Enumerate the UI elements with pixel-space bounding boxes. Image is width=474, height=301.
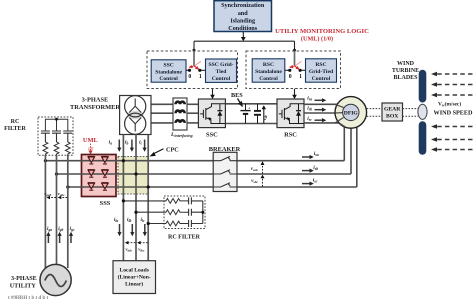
wire: grid vertical phase c xyxy=(67,155,69,268)
wire: load vertical phase a (transformer to loads) xyxy=(122,135,124,261)
svg-text:irc: irc xyxy=(307,116,312,122)
svg-text:vsbc: vsbc xyxy=(251,179,258,184)
svg-text:Linear): Linear) xyxy=(125,281,143,288)
svg-text:ic: ic xyxy=(139,139,142,145)
svg-text:Control: Control xyxy=(312,76,331,82)
resistor load-RC phase a xyxy=(166,199,187,204)
svg-text:Synchronization: Synchronization xyxy=(221,2,265,9)
label: v_lab / v_lbc with arrows xyxy=(128,242,136,244)
label: WIND TURBINE BLADES xyxy=(392,61,419,81)
resistor load-RC phase b xyxy=(166,210,187,215)
dashed box: SSC control group xyxy=(147,51,238,89)
wire: load RC tap b xyxy=(136,211,166,213)
svg-text:DFIG: DFIG xyxy=(344,111,359,117)
svg-text:+: + xyxy=(248,105,251,110)
wire: junction into SSC switch pivot xyxy=(193,50,195,66)
svg-text:and: and xyxy=(238,10,249,17)
wind arrows (dashed) xyxy=(436,74,473,150)
wire: sync box output to control branch xyxy=(194,32,295,51)
wire: RC filter common top bus xyxy=(45,119,67,131)
svg-text:Control: Control xyxy=(259,76,278,82)
svg-text:Grid-Tied: Grid-Tied xyxy=(309,69,334,75)
svg-text:ia: ia xyxy=(109,139,112,145)
wind turbine blade (lower) xyxy=(419,121,427,154)
svg-text:3-PHASE: 3-PHASE xyxy=(11,275,37,282)
capacitor dc-link xyxy=(254,104,261,124)
svg-text:Linterfacing: Linterfacing xyxy=(170,132,193,138)
box: Synchronization and Islanding Conditions xyxy=(214,1,272,32)
svg-text:WIND SPEED: WIND SPEED xyxy=(434,110,474,117)
wire: stator drops from DFIG to bus xyxy=(344,125,357,187)
switch: RSC UML selector xyxy=(285,61,306,80)
dashed box: load RC filter xyxy=(164,196,205,229)
wire: load RC tap a xyxy=(123,200,166,202)
svg-text:Standalone: Standalone xyxy=(155,69,182,75)
svg-text:Local Loads: Local Loads xyxy=(120,268,150,274)
node: load RC right bus xyxy=(201,211,204,214)
svg-text:RSC: RSC xyxy=(315,62,326,68)
svg-text:1: 1 xyxy=(199,74,202,80)
node: RC tap c xyxy=(147,222,150,225)
bus line phase a xyxy=(45,160,344,162)
svg-text:igc: igc xyxy=(70,226,75,232)
node: transformer drop on bus a xyxy=(122,159,125,162)
box: SSC Standalone Control xyxy=(151,60,186,82)
node: RC filter top xyxy=(55,118,58,121)
svg-text:UTILIY MONITORING LOGIC: UTILIY MONITORING LOGIC xyxy=(275,28,369,35)
svg-text:isa: isa xyxy=(314,151,319,157)
svg-text:ira: ira xyxy=(307,96,312,102)
wire: transformer to interfacing inductor (3-phase) xyxy=(151,104,173,123)
wire: load vertical phase c xyxy=(147,135,149,261)
svg-text:BLADES: BLADES xyxy=(393,75,418,81)
switch: SSC UML selector xyxy=(186,61,206,80)
inductor L_interfacing xyxy=(173,98,187,130)
svg-text:iga: iga xyxy=(47,226,52,232)
wire: load RC tap c xyxy=(148,223,166,225)
wire: inductor to SSC (3-phase) xyxy=(187,104,198,123)
svg-text:ilb: ilb xyxy=(127,217,131,223)
box: SSS static switch body xyxy=(82,155,117,197)
capacitor load-RC phase a xyxy=(187,197,203,204)
dashed box: grid RC filter xyxy=(38,117,73,155)
svg-text:RSC: RSC xyxy=(284,131,297,138)
node: bus start b xyxy=(55,172,58,175)
battery BES xyxy=(240,104,250,124)
svg-text:0: 0 xyxy=(188,74,191,80)
svg-text:BOX: BOX xyxy=(386,114,399,120)
svg-text:ila: ila xyxy=(114,217,118,223)
thyristor pairs inside SSS (2 cols x 3 rows) xyxy=(88,156,108,190)
svg-text:RSC: RSC xyxy=(263,62,274,68)
svg-text:Control: Control xyxy=(212,76,231,82)
label: RC FILTER (grid side) xyxy=(4,119,26,132)
svg-text:vgbc: vgbc xyxy=(58,191,65,197)
svg-text:0: 0 xyxy=(289,74,292,80)
gearbox xyxy=(382,103,403,121)
svg-text:ilc: ilc xyxy=(141,217,145,223)
svg-text:RC: RC xyxy=(11,119,20,125)
label: 3-PHASE UTILITY xyxy=(10,275,37,289)
capacitor load-RC phase b xyxy=(187,209,203,216)
svg-text:Control: Control xyxy=(159,76,178,82)
svg-text:isc: isc xyxy=(313,178,318,184)
wind turbine hub xyxy=(418,104,427,119)
svg-text:vdc: vdc xyxy=(263,114,268,120)
svg-text:CPC: CPC xyxy=(166,146,179,153)
svg-text:isb: isb xyxy=(313,165,318,171)
svg-text:RC FILTER: RC FILTER xyxy=(168,235,201,241)
svg-text:WIND: WIND xyxy=(397,61,415,67)
svg-text:ib: ib xyxy=(125,139,128,145)
wire: rotor phase lines RSC to DFIG xyxy=(304,104,345,123)
converter SSC xyxy=(198,99,225,128)
label: v_dc arrow xyxy=(263,109,265,124)
box: Local Loads xyxy=(113,261,156,294)
svg-text:TRANSFORMER: TRANSFORMER xyxy=(70,104,120,111)
dashed box: RSC control group xyxy=(246,51,341,89)
svg-text:SSC: SSC xyxy=(206,131,218,138)
svg-text:GEAR: GEAR xyxy=(384,107,401,113)
svg-text:vsab: vsab xyxy=(251,167,258,172)
capacitor grid-RC phase b xyxy=(52,131,61,142)
svg-text:(UML) (1/0): (UML) (1/0) xyxy=(301,36,333,43)
generator DFIG xyxy=(335,97,367,129)
box: RSC Grid-Tied Control xyxy=(306,59,337,82)
box: SSC Grid-Tied Control xyxy=(206,59,237,82)
wire: grid vertical phase b xyxy=(56,155,58,270)
svg-text:vlbc: vlbc xyxy=(138,247,145,253)
node: SSC control junction xyxy=(193,49,196,52)
label: 3-PHASE TRANSFORMER xyxy=(70,96,120,111)
wire: junction into RSC switch pivot xyxy=(294,50,296,66)
svg-text:Islanding: Islanding xyxy=(230,17,256,24)
svg-text:vgab: vgab xyxy=(44,191,51,197)
wire: dc link rails xyxy=(225,103,277,105)
node: RC tap a xyxy=(122,199,125,202)
shaft: DFIG to gearbox (dotted) xyxy=(367,109,418,117)
svg-text:Conditions: Conditions xyxy=(228,25,257,32)
box: CPC (common point of coupling, shaded) xyxy=(118,157,148,195)
svg-text:igb: igb xyxy=(58,226,63,232)
resistor load-RC phase c xyxy=(166,221,187,226)
svg-text:(Linear+Non-: (Linear+Non- xyxy=(118,274,151,281)
svg-text:1: 1 xyxy=(299,74,302,80)
node: bus start c xyxy=(66,185,69,188)
resistor grid-RC phase c xyxy=(65,142,70,155)
resistor grid-RC phase a xyxy=(43,142,48,155)
svg-text:UML: UML xyxy=(83,137,98,144)
breaker box xyxy=(213,152,237,191)
svg-text:FILTER: FILTER xyxy=(4,126,26,132)
svg-text:SSC Grid-: SSC Grid- xyxy=(208,62,233,68)
wire: load RC right bus xyxy=(202,201,204,224)
wire: SSC control output to SSC converter xyxy=(212,89,214,96)
node: RSC control junction xyxy=(293,49,296,52)
box: RSC Standalone Control xyxy=(252,59,285,82)
node: bus start a xyxy=(44,159,47,162)
source: 3-phase utility xyxy=(40,264,71,295)
svg-text:Standalone: Standalone xyxy=(255,69,282,75)
svg-text:BES: BES xyxy=(231,92,243,99)
capacitor load-RC phase c xyxy=(187,220,203,227)
breaker blades xyxy=(213,156,237,187)
svg-text:t #9HRH t b t d: t #9HRH t b t d b t xyxy=(8,296,48,301)
svg-text:SSS: SSS xyxy=(100,200,111,207)
svg-text:irb: irb xyxy=(307,105,312,111)
node: transformer drop on bus b xyxy=(134,172,137,175)
converter RSC xyxy=(277,99,304,128)
wire: grid vertical phase a xyxy=(44,155,46,268)
svg-text:Tied: Tied xyxy=(216,69,228,75)
wind turbine blade (upper) xyxy=(419,70,427,103)
svg-text:SSC: SSC xyxy=(163,63,173,69)
node: transformer drop on bus c xyxy=(147,185,150,188)
svg-text:UTILITY: UTILITY xyxy=(10,282,37,289)
text: UTILIY MONITORING LOGIC (UML) (1/0) xyxy=(275,28,369,43)
svg-text:Vw(m/sec): Vw(m/sec) xyxy=(438,101,461,108)
wire: RSC control output to RSC converter xyxy=(294,89,296,96)
capacitor grid-RC phase a xyxy=(41,131,50,142)
wire: load vertical phase b xyxy=(135,135,137,261)
transformer T1 xyxy=(120,96,151,135)
bus line phase b xyxy=(57,173,352,175)
svg-text:TURBINE: TURBINE xyxy=(392,68,419,74)
resistor grid-RC phase b xyxy=(54,142,59,155)
capacitor grid-RC phase c xyxy=(63,131,72,142)
node: RC tap b xyxy=(134,211,137,214)
svg-text:3-PHASE: 3-PHASE xyxy=(82,96,109,103)
svg-text:vlab: vlab xyxy=(126,247,133,253)
bus line phase c xyxy=(68,186,357,188)
